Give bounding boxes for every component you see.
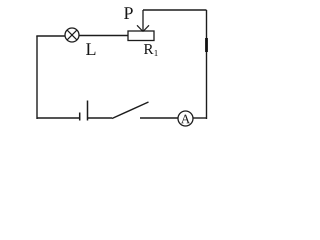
thick mark on right wire	[205, 38, 208, 52]
rheostat R1 body	[128, 31, 154, 41]
wire: left vertical segment	[36, 36, 38, 119]
label L	[86, 43, 95, 55]
wire: bottom left horizontal to battery	[37, 117, 79, 119]
ammeter A	[178, 111, 193, 126]
switch (open blade)	[112, 102, 178, 119]
wire: lamp to rheostat	[79, 35, 128, 37]
lamp L (circle with X)	[65, 28, 79, 42]
label P	[124, 7, 133, 19]
wire: right vertical segment	[206, 10, 208, 119]
wire: ammeter to right corner	[193, 117, 207, 119]
wiper P (arrow onto rheostat)	[137, 10, 149, 32]
wire: battery to switch	[88, 117, 112, 119]
label R1	[144, 44, 158, 56]
battery (cell)	[80, 101, 88, 121]
wire: top-left horizontal to lamp	[36, 35, 65, 37]
wire: top horizontal from wiper to right side	[143, 9, 207, 11]
